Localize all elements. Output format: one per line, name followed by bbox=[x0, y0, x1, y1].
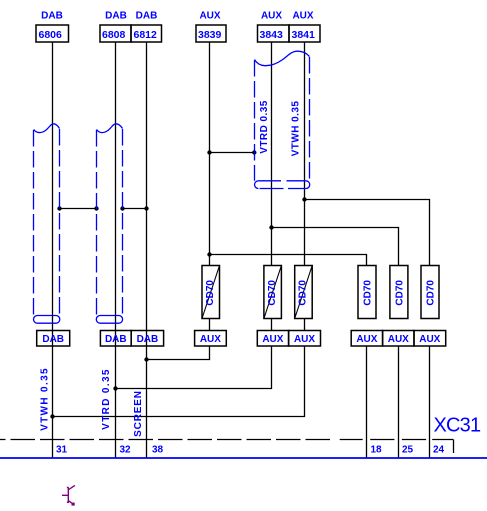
svg-text:VTRD 0.35: VTRD 0.35 bbox=[101, 368, 112, 430]
wire right AUX pin 24 bbox=[429, 346, 431, 458]
box DAB 6808 bbox=[100, 25, 131, 42]
junction on screen wire 6812 bbox=[144, 206, 148, 210]
svg-text:AUX: AUX bbox=[261, 11, 282, 22]
junction on wire 6806/VTWH at pin 31 branch bbox=[50, 414, 54, 418]
bus bar blue line bbox=[0, 457, 487, 459]
connector CD70 (diag) under 3843 bbox=[264, 266, 282, 319]
box AUX lower triple 2 (pin 25) bbox=[383, 331, 414, 347]
transistor symbol (page continuation mark) bbox=[62, 485, 75, 505]
junction wire 3843 branch to CD70 pin 25 bbox=[269, 225, 273, 229]
svg-text:6806: 6806 bbox=[39, 29, 63, 41]
box AUX 3839 bbox=[196, 25, 226, 42]
svg-text:DAB: DAB bbox=[137, 334, 159, 345]
svg-text:DAB: DAB bbox=[41, 11, 63, 22]
connector cell tick bbox=[453, 440, 455, 454]
wire right AUX pin 18 bbox=[366, 346, 368, 458]
junction wire 3839 branch to CD70 pin 18 bbox=[207, 252, 211, 256]
box AUX lower triple 1 (pin 18) bbox=[351, 331, 382, 347]
junction shield C left edge bbox=[252, 150, 256, 154]
svg-text:DAB: DAB bbox=[42, 334, 64, 345]
connector CD70 right #3 bbox=[421, 266, 439, 319]
connector CD70 (diag) under 3839 bbox=[202, 266, 220, 319]
wire W2 from DAB 6808 bbox=[115, 42, 117, 458]
box AUX lower triple 3 (pin 24) bbox=[414, 331, 446, 347]
svg-text:CD70: CD70 bbox=[205, 280, 216, 306]
svg-text:AUX: AUX bbox=[388, 334, 409, 345]
wire W1 from DAB 6806 bbox=[52, 42, 54, 458]
wire branch 3839 to right CD70 #1 bbox=[210, 255, 367, 266]
svg-text:6808: 6808 bbox=[102, 29, 126, 41]
svg-text:AUX: AUX bbox=[200, 334, 221, 345]
svg-text:18: 18 bbox=[371, 445, 383, 456]
junction shield B left edge bbox=[94, 206, 98, 210]
wire branch 3843 to right CD70 #2 bbox=[272, 228, 399, 266]
svg-text:CD70: CD70 bbox=[394, 280, 405, 306]
svg-text:AUX: AUX bbox=[262, 334, 283, 345]
wire W4 from AUX 3839 bbox=[147, 42, 210, 360]
connector CD70 right #2 bbox=[390, 266, 408, 319]
shield C around 3843/3841 wires bbox=[255, 51, 310, 188]
svg-text:AUX: AUX bbox=[199, 11, 220, 22]
svg-text:VTRD 0.35: VTRD 0.35 bbox=[259, 100, 270, 154]
svg-text:CD70: CD70 bbox=[267, 280, 278, 306]
svg-text:AUX: AUX bbox=[294, 334, 315, 345]
svg-text:3841: 3841 bbox=[292, 29, 316, 41]
svg-text:3839: 3839 bbox=[198, 29, 222, 41]
svg-text:CD70: CD70 bbox=[363, 280, 374, 306]
connector CD70 (diag) under 3841 bbox=[295, 266, 313, 319]
connector cell top edges bbox=[340, 439, 454, 441]
svg-text:SCREEN: SCREEN bbox=[133, 390, 144, 437]
svg-text:24: 24 bbox=[433, 445, 445, 456]
wire W6 from AUX 3841 bbox=[53, 42, 305, 417]
svg-text:38: 38 bbox=[152, 445, 164, 456]
wire shield B to screen wire link bbox=[123, 208, 147, 210]
svg-text:25: 25 bbox=[402, 445, 414, 456]
box AUX lower pair right bbox=[289, 331, 321, 347]
shield A around 6806 wire bbox=[34, 124, 60, 323]
svg-text:3843: 3843 bbox=[260, 29, 284, 41]
svg-text:XC31: XC31 bbox=[434, 415, 482, 437]
wire shield A to shield B link bbox=[60, 208, 97, 210]
wire W5 from AUX 3843 bbox=[116, 42, 272, 389]
svg-text:AUX: AUX bbox=[292, 11, 313, 22]
box AUX 3841 bbox=[289, 25, 320, 42]
box AUX 3843 bbox=[258, 25, 290, 42]
svg-text:CD70: CD70 bbox=[426, 280, 437, 306]
connector CD70 right #1 bbox=[358, 266, 376, 319]
wire branch 3839 to shield C bbox=[210, 152, 255, 154]
junction on wire 6808/VTRD at pin 32 branch bbox=[113, 386, 117, 390]
box AUX lower single bbox=[195, 331, 227, 347]
junction on wire 3839 to shield C bbox=[207, 150, 211, 154]
svg-text:31: 31 bbox=[56, 445, 68, 456]
svg-text:6812: 6812 bbox=[134, 29, 158, 41]
wire branch 3841 to right CD70 #3 bbox=[305, 200, 430, 266]
svg-text:VTWH 0.35: VTWH 0.35 bbox=[40, 367, 51, 431]
box AUX lower pair left bbox=[257, 331, 288, 347]
junction screen wire to AUX 3839 return bbox=[144, 357, 148, 361]
wire W3 from DAB 6812 (screen) bbox=[146, 42, 148, 458]
shield B around 6808 wire bbox=[96, 124, 122, 323]
svg-text:32: 32 bbox=[120, 445, 132, 456]
connector XC31 dashed boundary bbox=[0, 439, 334, 441]
box DAB 6812 bbox=[131, 25, 162, 42]
svg-text:VTWH 0.35: VTWH 0.35 bbox=[291, 101, 302, 157]
box DAB lower pair right bbox=[131, 331, 163, 347]
svg-text:DAB: DAB bbox=[105, 11, 127, 22]
junction shield B right edge bbox=[120, 206, 124, 210]
svg-text:CD70: CD70 bbox=[298, 280, 309, 306]
svg-text:DAB: DAB bbox=[105, 334, 127, 345]
junction wire 3841 branch to CD70 pin 24 bbox=[302, 197, 306, 201]
box DAB lower single bbox=[37, 331, 70, 347]
box DAB 6806 bbox=[36, 25, 69, 42]
junction shield A right edge bbox=[57, 206, 61, 210]
svg-text:DAB: DAB bbox=[136, 11, 158, 22]
svg-text:AUX: AUX bbox=[356, 334, 377, 345]
svg-text:AUX: AUX bbox=[419, 334, 440, 345]
box DAB lower pair left bbox=[100, 331, 131, 347]
wire right AUX pin 25 bbox=[398, 346, 400, 458]
